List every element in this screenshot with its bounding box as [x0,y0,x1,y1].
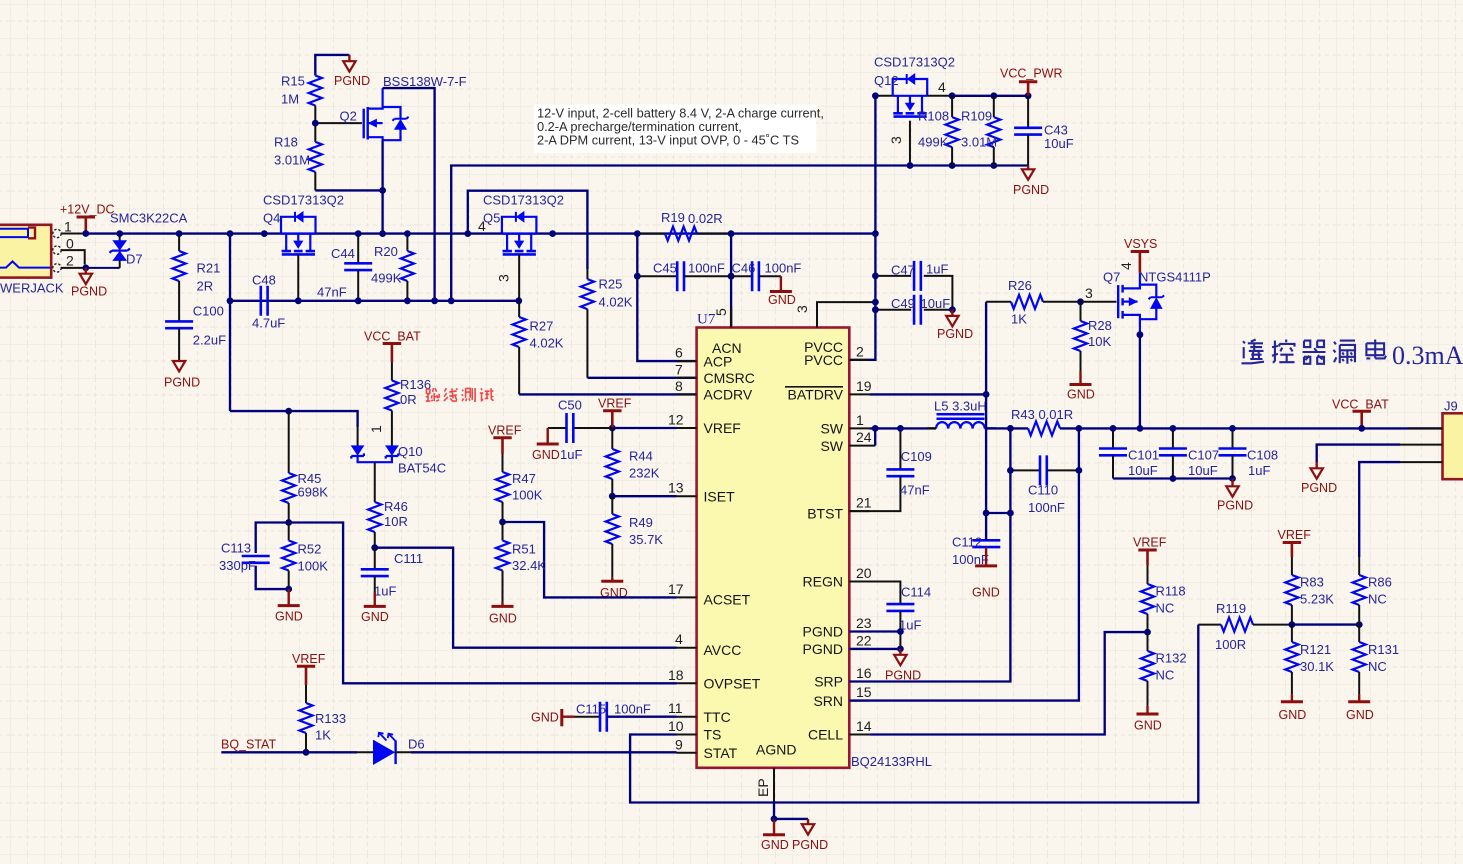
svg-text:VCC_BAT: VCC_BAT [1332,398,1389,412]
resistor R119 [1198,618,1292,632]
svg-text:7: 7 [675,361,683,377]
svg-text:Q2: Q2 [340,109,357,124]
svg-text:1uF: 1uF [926,261,948,276]
svg-text:BQ_STAT: BQ_STAT [221,738,276,752]
svg-text:NC: NC [1368,659,1387,674]
svg-text:R21: R21 [197,261,221,276]
svg-text:4: 4 [675,631,683,647]
svg-text:R49: R49 [629,515,653,530]
svg-text:R20: R20 [374,244,398,259]
svg-text:1K: 1K [315,728,331,743]
U7 pin 18 [668,667,697,684]
wire SW pin24 jog [874,428,876,445]
resistor R46 [368,462,381,548]
svg-text:C49: C49 [891,296,915,311]
resistor R28 [1074,302,1087,371]
U7 pin 9 [675,736,697,753]
resistor R52 [282,523,295,590]
svg-text:C114: C114 [901,585,931,600]
power port VSYS [1124,237,1157,273]
svg-text:16: 16 [856,665,872,681]
U7 pin 17 [668,581,697,598]
svg-text:CSD17313Q2: CSD17313Q2 [483,193,564,208]
power port PGND top [334,55,370,88]
capacitor C108 [1219,428,1247,478]
svg-text:17: 17 [668,581,684,597]
svg-text:13: 13 [668,480,684,496]
wire ACSET pin 17 [503,522,677,597]
node label: big navy note 遥控器漏电0.3mA [1242,340,1387,364]
J9 pin 3 to R86 [1400,461,1443,463]
svg-text:5.23K: 5.23K [1300,592,1334,607]
svg-text:11: 11 [668,700,683,716]
svg-text:3: 3 [1085,285,1093,301]
resistor R51 [496,522,509,602]
svg-text:10uF: 10uF [1188,463,1218,478]
resistor R18 [309,142,322,172]
capacitor C114 REGN [849,582,914,649]
U7 pin 24 [849,429,875,446]
wire main input bus [86,232,876,234]
wire SRN [849,428,1079,700]
svg-text:3: 3 [888,136,904,144]
svg-text:30.1K: 30.1K [1300,659,1334,674]
svg-text:3: 3 [794,305,810,313]
J9 pin 1 [1408,427,1442,429]
svg-text:232K: 232K [629,466,660,481]
svg-text:698K: 698K [298,485,329,500]
power port VCC_BAT right [1332,398,1389,429]
wire Q12 drain vertical [849,96,875,360]
capacitor C43 [1014,96,1042,166]
svg-text:STAT: STAT [704,745,738,761]
svg-text:3.01M: 3.01M [961,135,997,150]
resistor R47 [496,454,509,522]
U7 pin 16 [849,665,871,682]
svg-text:VREF: VREF [488,424,522,438]
svg-text:GND: GND [489,612,517,626]
svg-text:SRP: SRP [814,674,843,690]
svg-text:NC: NC [1156,668,1175,683]
wire Q5 gate [518,255,520,301]
svg-text:GND: GND [1134,719,1162,733]
wire Q4 gate [297,255,299,301]
svg-text:R27: R27 [530,319,554,334]
resistor R49 [606,496,619,578]
svg-text:10R: 10R [384,514,408,529]
svg-text:C101: C101 [1128,448,1159,463]
svg-text:CMSRC: CMSRC [704,370,755,386]
svg-text:2R: 2R [197,278,214,293]
svg-text:GND: GND [761,838,789,852]
svg-text:AGND: AGND [756,741,796,757]
U7 pin 20 [849,565,871,582]
svg-text:BQ24133RHL: BQ24133RHL [851,754,932,769]
resistor R133 [299,685,312,752]
svg-text:OVPSET: OVPSET [704,676,761,692]
resistor R83 [1285,557,1298,625]
U7 pin 19 [849,378,871,395]
resistor R131 [1353,625,1366,695]
resistor R43 [1028,421,1060,435]
power port PGND under jack [71,268,107,299]
svg-text:R132: R132 [1156,651,1187,666]
junction pin1 [82,230,89,237]
junction pin2/PGND [82,265,89,272]
svg-text:R83: R83 [1300,575,1324,590]
svg-text:4: 4 [938,79,946,95]
svg-text:PGND: PGND [1013,183,1049,197]
svg-text:499K: 499K [918,135,949,150]
power port PGND under pin22 [885,649,921,683]
U7 pin 23 [849,615,871,632]
resistor R45 [282,411,295,522]
capacitor C50 [548,413,613,443]
svg-text:GND: GND [972,586,1000,600]
power port VCC_BAT left [364,330,421,363]
power port GND under C50 [532,428,560,462]
svg-text:3.01M: 3.01M [274,153,310,168]
svg-text:PGND: PGND [792,838,828,852]
diode Q10 BAT54C [351,427,398,462]
svg-text:0.02R: 0.02R [688,211,723,226]
svg-text:C45: C45 [653,260,677,275]
svg-text:100nF: 100nF [614,702,651,717]
pin 0 [61,235,84,264]
transistor Q12 CSD17313Q2 [893,74,928,117]
wire Q2 drain to gate bus [383,88,435,301]
svg-text:21: 21 [856,495,872,511]
U7 pin 22 [849,632,871,649]
svg-text:10uF: 10uF [921,296,951,311]
svg-text:PGND: PGND [164,376,200,390]
svg-text:D6: D6 [408,737,425,752]
wire ACDRV to pin 8 [519,393,696,395]
svg-text:GND: GND [532,448,560,462]
svg-text:ACSET: ACSET [704,592,751,608]
capacitor C113 loop [242,523,289,590]
resistor R21 [173,234,186,322]
svg-text:C47: C47 [891,263,915,278]
svg-text:19: 19 [856,378,872,394]
svg-text:ACDRV: ACDRV [704,387,753,403]
svg-text:VREF: VREF [1278,528,1312,542]
U7 pin 14 [849,718,871,735]
svg-text:0R: 0R [400,392,417,407]
svg-text:1: 1 [856,412,864,428]
svg-text:NTGS4111P: NTGS4111P [1139,270,1211,285]
svg-text:24: 24 [856,429,872,445]
svg-text:GND: GND [768,293,796,307]
svg-text:8: 8 [675,378,683,394]
svg-text:R119: R119 [1216,601,1246,616]
wire D6 to pin 9 [411,751,677,753]
svg-text:AVCC: AVCC [704,642,742,658]
svg-text:20: 20 [856,565,872,581]
svg-text:PGND: PGND [803,624,843,640]
node label: red note 跳线测试 [426,388,494,401]
wire Q12 source to R108/R109/C43 [927,95,952,97]
svg-text:C115: C115 [576,702,606,717]
power port GND at C115 (sideways) [531,709,575,726]
power port PGND under C108 [1217,479,1253,513]
svg-text:VCC_PWR: VCC_PWR [1000,67,1063,81]
power port GND under R28 [1067,371,1095,402]
power port VREF over R118 [1133,536,1167,566]
svg-text:R46: R46 [384,499,408,514]
svg-text:1K: 1K [1011,312,1027,327]
svg-text:+12V_DC: +12V_DC [60,203,115,217]
U7 pin EP [755,768,774,803]
svg-text:3: 3 [496,274,512,282]
svg-text:CELL: CELL [808,727,843,743]
wire R121/R131 link [1292,623,1359,625]
J9 pin 2 to PGND [1400,444,1443,446]
svg-text:1: 1 [368,425,384,433]
U7 pin 15 [849,684,871,701]
svg-text:4: 4 [1118,262,1134,270]
svg-text:VREF: VREF [598,397,632,411]
svg-text:SW: SW [820,438,843,454]
svg-text:VREF: VREF [1133,536,1167,550]
svg-text:1M: 1M [281,92,299,107]
svg-text:2: 2 [856,344,864,360]
capacitor C111 [361,548,389,593]
U7 pin 3 top [794,302,875,327]
svg-text:ISET: ISET [704,488,736,504]
U7 pin 12 [668,412,697,429]
LED D6 [357,733,411,764]
svg-text:R47: R47 [512,471,536,486]
power port VREF pin12 [598,397,632,429]
svg-text:R25: R25 [599,277,623,292]
wire VREF pin 12 [612,427,676,429]
svg-text:R131: R131 [1368,642,1399,657]
svg-text:R109: R109 [961,109,992,124]
svg-text:EP: EP [755,778,771,797]
U7 pin 13 [668,480,697,497]
svg-text:BSS138W-7-F: BSS138W-7-F [383,74,467,89]
wire input sense to Q10 [230,411,358,427]
svg-text:L5 3.3uH: L5 3.3uH [934,399,987,414]
capacitor C47 [875,261,952,310]
svg-text:TTC: TTC [704,709,731,725]
transistor Q7 NTGS4111P [1081,273,1165,335]
capacitor C44 [344,234,372,301]
svg-text:35.7K: 35.7K [629,532,663,547]
capacitor C115 [575,702,677,732]
svg-text:C108: C108 [1247,448,1278,463]
wire SW node [869,427,936,429]
svg-text:C100: C100 [193,304,224,319]
svg-text:C44: C44 [331,246,355,261]
svg-text:47nF: 47nF [317,285,347,300]
svg-text:PGND: PGND [334,74,370,88]
wire OVPSET [289,523,677,684]
svg-text:J9: J9 [1444,399,1458,414]
svg-text:VSYS: VSYS [1124,237,1157,251]
svg-text:WERJACK: WERJACK [0,281,64,296]
wire gate bus [230,300,519,302]
svg-text:D7: D7 [126,251,143,266]
svg-text:BAT54C: BAT54C [398,461,446,476]
svg-text:100R: 100R [1215,637,1246,652]
resistor R132 [1141,632,1154,706]
power port +12V_DC [60,203,115,234]
capacitor C101 [1099,428,1127,478]
power port VCC_PWR [1000,67,1063,96]
capacitor C100 [165,321,193,328]
svg-text:R108: R108 [918,109,949,124]
svg-text:1uF: 1uF [560,447,582,462]
svg-text:VREF: VREF [292,652,326,666]
IC U7 BQ24133RHL [697,328,850,768]
svg-text:1uF: 1uF [1248,463,1270,478]
capacitor C107 [1159,428,1187,478]
svg-text:100nF: 100nF [1028,500,1065,515]
power port VREF over R47 [488,424,522,455]
U7 pin 2 [849,344,869,361]
svg-text:PGND: PGND [71,285,107,299]
svg-text:C113: C113 [221,541,251,556]
svg-text:SMC3K22CA: SMC3K22CA [110,211,188,226]
svg-text:0.3mA: 0.3mA [1392,341,1463,370]
svg-text:C50: C50 [558,398,582,413]
power port GND under R52 [275,589,303,623]
svg-text:100nF: 100nF [765,260,802,275]
U7 pin 4 [675,631,697,648]
wire pin2 to D7 [86,267,120,269]
power port PGND under C43 [1013,166,1049,198]
svg-text:C109: C109 [901,449,932,464]
wire ACP vertical to pin 5 [730,234,732,328]
resistor R20 [401,234,414,301]
wire BATDRV [869,302,986,395]
svg-text:5: 5 [713,308,729,316]
svg-text:100K: 100K [298,559,329,574]
svg-text:GND: GND [1279,708,1307,722]
svg-text:GND: GND [275,610,303,624]
power port VREF over R83 [1278,528,1312,557]
svg-text:2.2uF: 2.2uF [193,333,226,348]
transistor Q2 BSS138W-7-F [364,88,409,140]
svg-text:4.02K: 4.02K [599,295,633,310]
svg-text:BTST: BTST [807,505,843,521]
svg-text:12: 12 [668,412,684,428]
svg-text:CSD17313Q2: CSD17313Q2 [874,55,955,70]
resistor R27 [513,301,526,395]
svg-text:1: 1 [64,219,72,235]
svg-text:10uF: 10uF [1128,463,1158,478]
svg-text:2-A DPM current, 13-V input O: 2-A DPM current, 13-V input OVP, 0 - 45˚… [537,133,799,148]
svg-text:C48: C48 [252,273,276,288]
svg-text:ACP: ACP [704,353,733,369]
svg-text:TS: TS [704,727,722,743]
wire CMSRC to pin 7 [587,377,696,379]
connector J9 [1443,399,1463,480]
power port GND under C112 [972,547,1000,599]
wire SW to R43 [985,427,1028,429]
svg-text:PGND: PGND [885,669,921,683]
TVS diode D7 [110,234,130,268]
wire R18 bottom to Q2 source [315,189,382,191]
svg-text:GND: GND [1067,388,1095,402]
wire SRP [849,470,1010,681]
power port GND under R132 [1134,706,1162,733]
wire PGND pins 23/22 [849,632,900,649]
svg-text:CSD17313Q2: CSD17313Q2 [263,193,344,208]
svg-text:PVCC: PVCC [804,352,843,368]
U7 pin 7 [675,361,697,378]
svg-text:R18: R18 [274,135,298,150]
wire AVCC sense vertical [229,234,231,412]
svg-text:15: 15 [856,684,872,700]
wire TS net [630,625,1198,803]
resistor R118 [1141,565,1154,632]
capacitor C45 [637,261,731,291]
power port GND under R49 [600,578,628,600]
svg-text:R118: R118 [1156,584,1186,599]
wire EP to grounds [773,803,775,819]
svg-text:Q10: Q10 [398,444,423,459]
svg-text:R52: R52 [298,542,322,557]
U7 pin 8 [675,378,697,395]
capacitor C49 [875,295,952,325]
svg-text:BATDRV: BATDRV [788,387,844,403]
U7 pin 6 [675,345,697,362]
svg-text:499K: 499K [371,271,402,286]
U7 pin 21 [849,495,871,512]
resistor R19 sense [637,227,731,241]
svg-text:4: 4 [478,218,486,234]
wire R43 right to battery rail [1060,427,1443,429]
wire AVCC [375,548,677,648]
wire Q7 source to battery rail [1139,335,1141,429]
svg-text:22: 22 [856,632,872,648]
svg-text:C111: C111 [394,551,423,566]
wire ISET pin 13 [612,495,676,497]
svg-text:Q7: Q7 [1103,270,1120,285]
svg-text:R121: R121 [1300,642,1331,657]
inductor L5 [936,414,985,428]
svg-text:R133: R133 [315,711,346,726]
svg-text:PGND: PGND [1301,481,1337,495]
svg-text:R86: R86 [1368,575,1392,590]
svg-text:VREF: VREF [704,420,741,436]
svg-text:NC: NC [1156,601,1175,616]
wire STAT net [221,751,357,753]
svg-text:10K: 10K [1088,334,1111,349]
svg-text:330pF: 330pF [219,558,256,573]
wire ACDRV long net [451,166,1028,301]
power port GND under C111 [361,593,389,625]
svg-text:C112: C112 [952,535,982,550]
svg-text:VCC_BAT: VCC_BAT [364,330,421,344]
svg-text:R51: R51 [512,542,536,557]
transistor Q5 CSD17313Q2 [502,212,537,255]
U7 pin 11 [668,700,697,717]
svg-text:47nF: 47nF [900,483,930,498]
wire CMSRC loop [468,191,588,269]
wire Q12 gate [909,121,911,166]
svg-text:2: 2 [66,252,74,268]
svg-text:R15: R15 [281,74,305,89]
resistor R108 [946,96,959,166]
capacitor C109 [849,428,914,511]
svg-text:10: 10 [668,718,684,734]
svg-text:R28: R28 [1088,318,1112,333]
wire ACN vertical to pin 6 [637,234,696,362]
